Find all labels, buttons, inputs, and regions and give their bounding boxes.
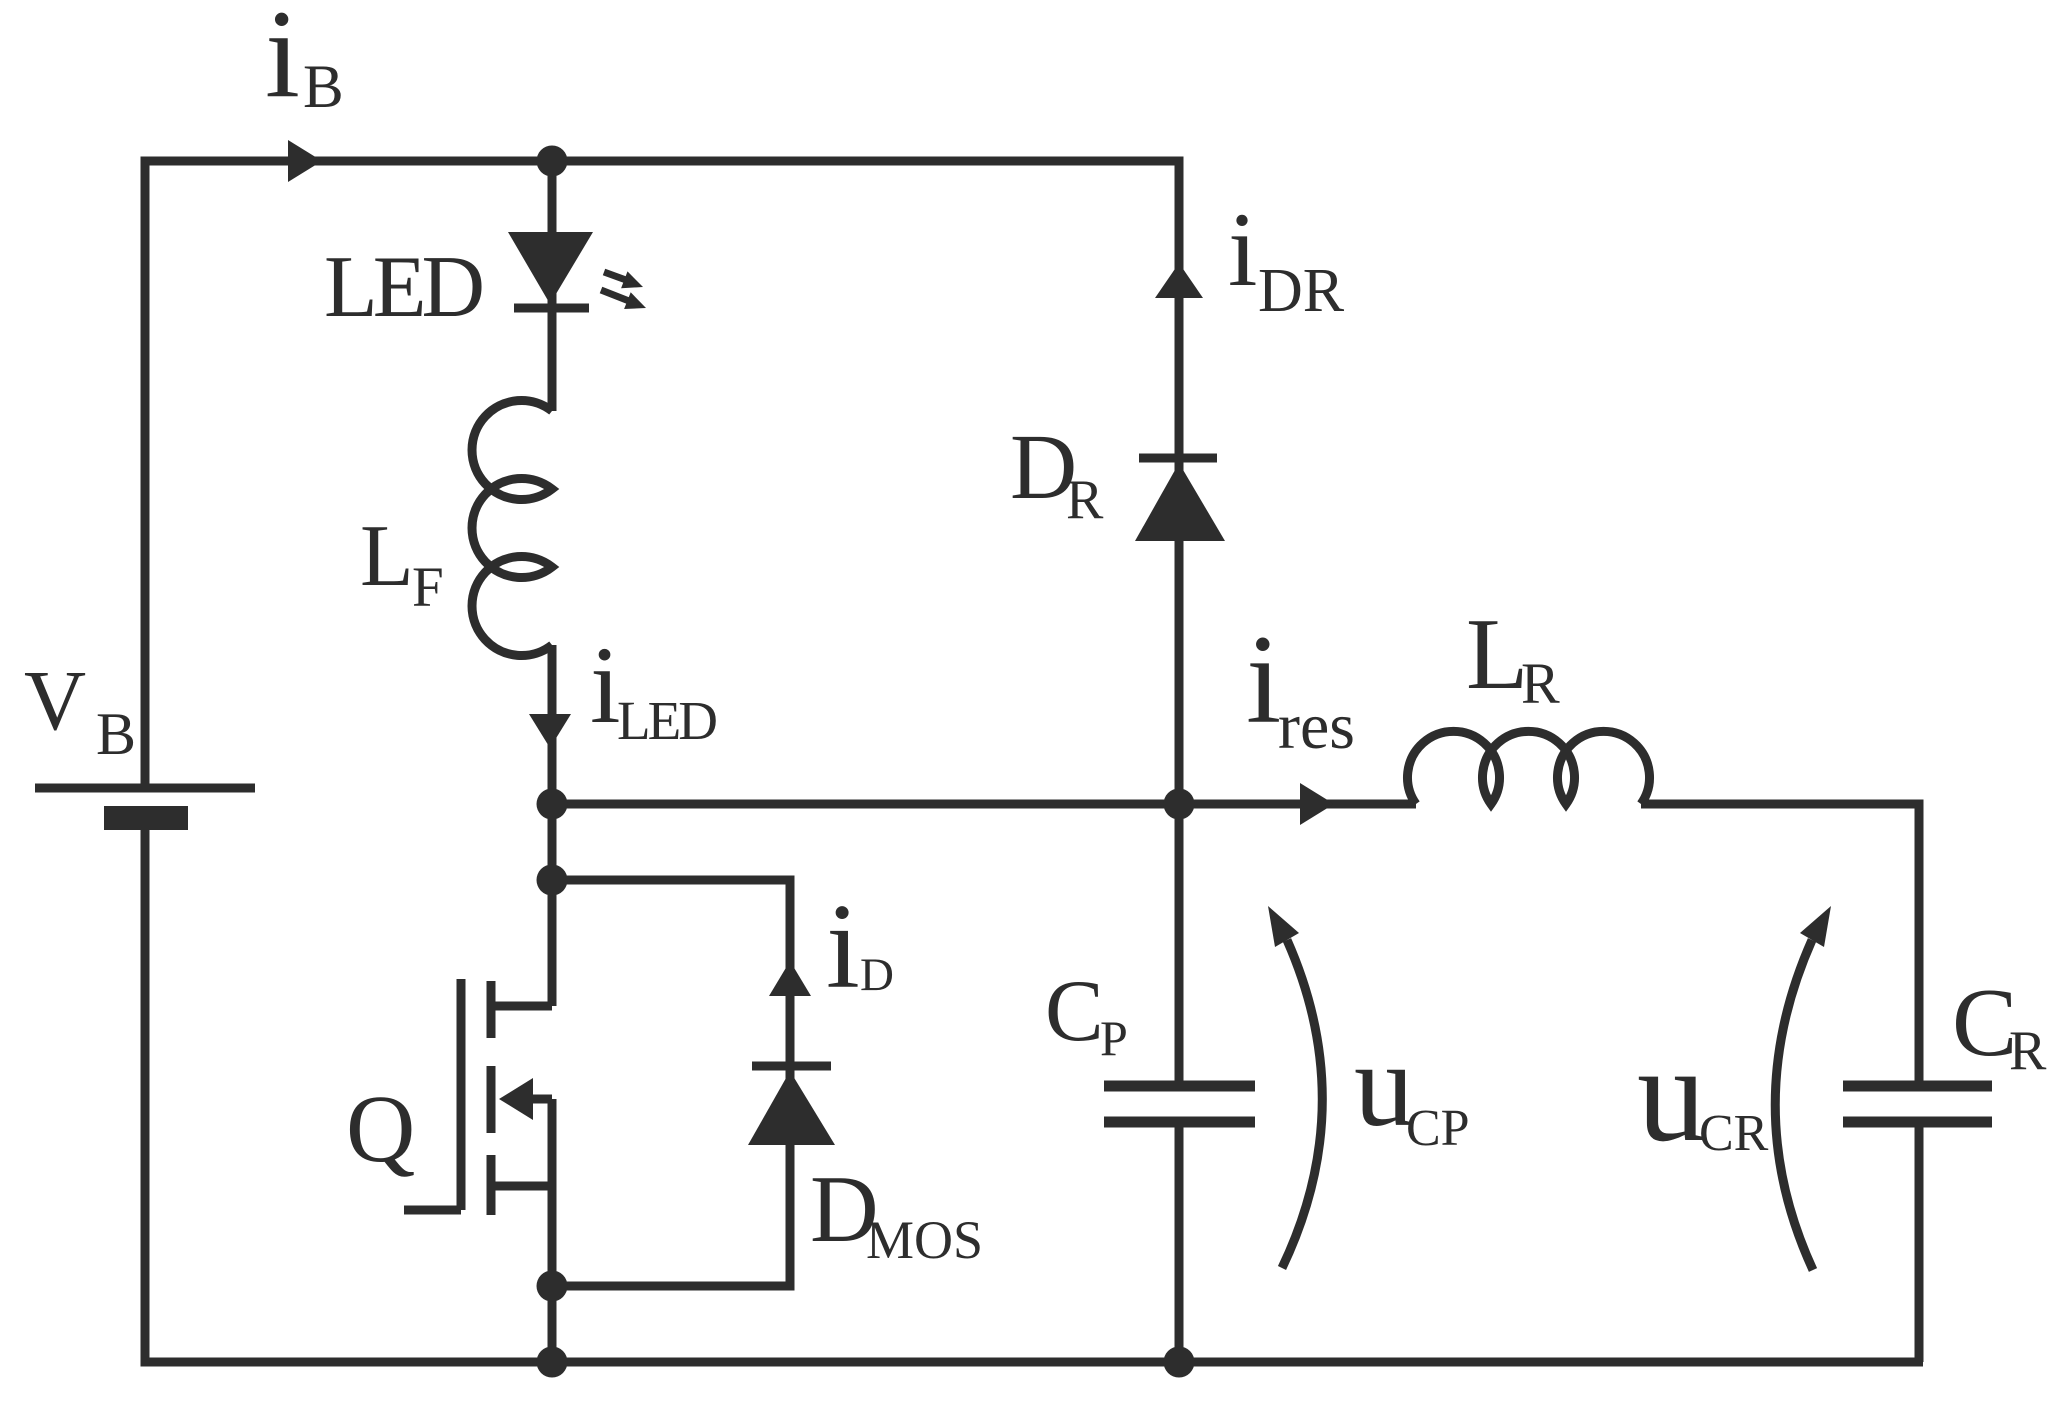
svg-text:i: i: [1228, 191, 1257, 308]
svg-text:L: L: [1466, 598, 1528, 711]
svg-text:LED: LED: [617, 690, 716, 751]
svg-text:i: i: [590, 624, 621, 746]
svg-text:D: D: [860, 949, 894, 1001]
svg-text:Q: Q: [346, 1075, 415, 1182]
svg-text:DR: DR: [1258, 257, 1345, 325]
svg-text:L: L: [360, 508, 414, 605]
svg-text:CR: CR: [1699, 1105, 1769, 1162]
svg-text:C: C: [1045, 963, 1104, 1060]
svg-text:i: i: [826, 879, 860, 1014]
svg-text:res: res: [1278, 690, 1355, 763]
svg-text:MOS: MOS: [866, 1210, 983, 1270]
svg-text:P: P: [1100, 1010, 1128, 1066]
svg-text:u: u: [1354, 1018, 1414, 1151]
svg-text:C: C: [1952, 969, 2017, 1077]
svg-text:i: i: [1246, 610, 1281, 750]
svg-text:u: u: [1637, 1017, 1706, 1170]
svg-text:i: i: [265, 0, 300, 124]
svg-text:R: R: [1066, 469, 1104, 531]
svg-text:B: B: [96, 701, 136, 767]
svg-text:LED: LED: [324, 239, 483, 336]
svg-text:R: R: [2009, 1020, 2047, 1082]
svg-text:V: V: [24, 652, 86, 748]
svg-text:CP: CP: [1406, 1100, 1470, 1157]
svg-text:B: B: [303, 54, 344, 121]
svg-text:F: F: [412, 556, 444, 619]
svg-text:R: R: [1521, 651, 1560, 716]
